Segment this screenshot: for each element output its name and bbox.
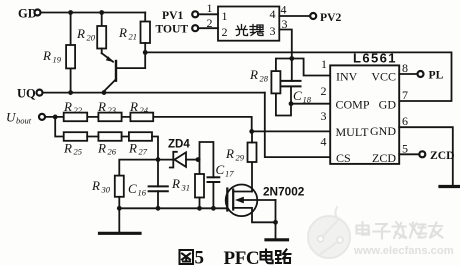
svg-text:R: R (129, 99, 138, 114)
resistor R19 (42, 13, 75, 93)
svg-text:4: 4 (321, 135, 327, 149)
node X (156, 157, 161, 162)
mosfet 2N7002 (226, 185, 305, 223)
svg-text:R: R (128, 141, 137, 156)
svg-text:29: 29 (236, 153, 245, 163)
svg-text:1: 1 (321, 57, 327, 71)
node rail-R30 (117, 206, 122, 211)
capacitor C17 (208, 162, 235, 208)
terminal PV2 (279, 3, 341, 25)
wire GND pin6 (399, 127, 453, 185)
svg-text:2N7002: 2N7002 (263, 185, 305, 199)
wire bottom rail (119, 207, 227, 209)
wire GD top rail (41, 12, 146, 14)
svg-text:PV2: PV2 (320, 11, 341, 24)
svg-text:1: 1 (207, 1, 213, 15)
svg-text:2: 2 (222, 25, 228, 39)
svg-text:R: R (118, 25, 127, 40)
terminal Ubout (6, 110, 45, 126)
wire R31 top bridge to C17 (200, 142, 214, 177)
svg-text:TOUT: TOUT (156, 23, 189, 36)
node UQ-collector (102, 90, 107, 95)
svg-text:5: 5 (402, 142, 408, 156)
svg-text:22: 22 (74, 105, 83, 115)
resistor R29 (225, 131, 257, 191)
node rail-R31 (197, 206, 202, 211)
resistor R26 (87, 132, 129, 156)
svg-text:C: C (128, 181, 137, 196)
node source junction (273, 220, 278, 225)
svg-text:MULT: MULT (336, 125, 370, 139)
wire INV branch (292, 59, 330, 76)
svg-text:3: 3 (270, 24, 276, 38)
svg-text:UQ: UQ (17, 87, 36, 101)
node Ubout split (53, 115, 58, 120)
transistor Q1 (102, 49, 146, 93)
svg-text:R: R (249, 67, 258, 82)
svg-text:R: R (225, 146, 234, 161)
terminal UQ (17, 87, 43, 101)
watermark text 电子发烧友 (357, 222, 443, 239)
svg-text:27: 27 (139, 147, 148, 157)
resistor R28 (249, 59, 292, 116)
wire Ubout row2 drop (55, 117, 64, 137)
svg-text:GND: GND (370, 124, 396, 138)
node GD-R20 (99, 10, 104, 15)
node rail-C16 (156, 206, 161, 211)
svg-text:VCC: VCC (371, 70, 396, 84)
resistor R24 (129, 99, 153, 121)
capacitor C18 (282, 81, 312, 105)
node R21 base junction (143, 50, 148, 55)
caption 图5 PFC 电路 (180, 248, 291, 266)
svg-text:R: R (97, 141, 106, 156)
resistor R25 (63, 132, 87, 156)
svg-text:www.elecfans.com: www.elecfans.com (353, 245, 454, 257)
ground left (100, 208, 141, 233)
wire UQ rail (43, 92, 265, 94)
node opto INV junction (289, 56, 294, 61)
svg-text:R: R (171, 176, 180, 191)
svg-text:ZCD: ZCD (430, 149, 454, 162)
svg-text:R: R (42, 48, 51, 63)
svg-text:CS: CS (336, 151, 351, 165)
zener ZD4 (158, 139, 198, 168)
svg-text:25: 25 (74, 147, 83, 157)
wire source down (275, 200, 277, 239)
wire GD drive line to pin7 (145, 52, 451, 101)
resistor R20 (76, 13, 106, 49)
svg-text:17: 17 (225, 169, 234, 179)
node UQ-R19 (68, 90, 73, 95)
svg-text:ZCD: ZCD (372, 151, 396, 165)
resistor R23 (97, 99, 122, 121)
node zener-R31 (196, 157, 201, 162)
terminal PL (418, 69, 444, 82)
svg-text:20: 20 (87, 33, 96, 43)
svg-text:R: R (63, 141, 72, 156)
svg-text:4: 4 (270, 7, 276, 21)
resistor R31 (171, 160, 204, 209)
svg-text:C: C (293, 88, 302, 103)
svg-text:3: 3 (282, 17, 288, 31)
svg-text:2: 2 (321, 84, 327, 98)
svg-text:16: 16 (138, 188, 147, 198)
svg-text:L6561: L6561 (353, 51, 397, 66)
svg-text:7: 7 (402, 88, 408, 102)
svg-text:5: 5 (195, 248, 205, 266)
IC U1 L6561 (321, 51, 409, 166)
svg-text:INV: INV (336, 70, 358, 84)
耦 glyph (250, 25, 264, 36)
svg-text:4: 4 (281, 3, 287, 17)
ground mosfet (266, 238, 288, 241)
svg-text:8: 8 (402, 61, 408, 75)
terminal GD (18, 7, 41, 21)
svg-text:PV1: PV1 (162, 9, 183, 22)
svg-text:R: R (91, 178, 100, 193)
svg-text:21: 21 (129, 32, 138, 42)
wire Ubout row1 (45, 117, 252, 131)
svg-text:R: R (63, 99, 72, 114)
wire nodeX to R30 (119, 160, 158, 176)
wire ZCD pin5 (399, 153, 419, 155)
resistor R30 (91, 176, 124, 209)
svg-text:R: R (76, 26, 85, 41)
svg-text:19: 19 (53, 55, 62, 65)
svg-text:2: 2 (207, 16, 213, 30)
capacitor C16 (128, 160, 168, 209)
resistor R27 (128, 132, 158, 159)
svg-text:C: C (216, 162, 225, 177)
svg-text:GD: GD (379, 98, 397, 112)
svg-text:PFC: PFC (224, 248, 260, 266)
svg-text:COMP: COMP (336, 98, 370, 112)
terminal TOUT (156, 16, 219, 35)
svg-text:1: 1 (222, 9, 228, 23)
wire UQ to CS pin4 (265, 93, 330, 158)
svg-text:bout: bout (16, 116, 32, 126)
wire VCC pin8 (399, 73, 417, 75)
wire COMP pin2 (291, 103, 330, 105)
resistor R21 (118, 13, 150, 53)
svg-text:ZD4: ZD4 (168, 139, 190, 151)
wire opto pin3 (279, 30, 292, 81)
svg-text:30: 30 (101, 185, 111, 195)
svg-text:PL: PL (429, 69, 444, 82)
svg-text:28: 28 (260, 74, 269, 84)
watermark logo (308, 207, 350, 258)
svg-text:6: 6 (402, 114, 408, 128)
svg-text:26: 26 (108, 147, 117, 157)
svg-text:24: 24 (140, 105, 149, 115)
svg-text:31: 31 (181, 183, 191, 193)
terminal PV1 (162, 1, 218, 22)
node rail-C17 (211, 206, 216, 211)
svg-text:R: R (97, 99, 106, 114)
wire MULT pin3 (252, 130, 331, 132)
svg-text:23: 23 (108, 105, 117, 115)
terminal ZCD (419, 149, 454, 162)
node COMP junction (289, 101, 294, 106)
resistor R22 (63, 99, 87, 121)
svg-text:3: 3 (321, 109, 327, 123)
node GD-R19 (68, 10, 73, 15)
node MULT junction (249, 129, 254, 134)
optocoupler U2 box (218, 7, 279, 41)
光 glyph (236, 25, 248, 36)
ground right (440, 185, 460, 188)
